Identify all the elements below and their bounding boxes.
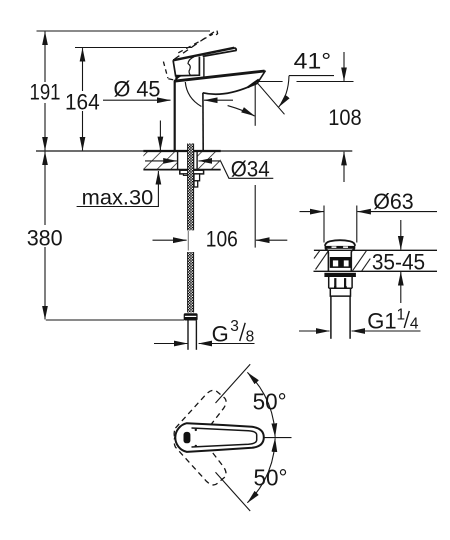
lever knob outline (173, 57, 199, 76)
deck reference line (36, 150, 352, 152)
pop-up waste cap dome (325, 240, 355, 246)
svg-text:164: 164 (65, 89, 100, 114)
svg-text:50°: 50° (254, 464, 288, 490)
overflow window (330, 257, 351, 268)
waste tailpipe (331, 296, 350, 339)
deck bottom line (143, 169, 220, 171)
top view dot upper (195, 429, 197, 431)
svg-text:Ø 45: Ø 45 (114, 76, 161, 101)
knob base shadow wedge (175, 75, 185, 80)
flexible hose upper segment (188, 144, 194, 231)
waste flange (324, 273, 356, 277)
svg-text:4: 4 (410, 316, 419, 333)
svg-text:106: 106 (206, 227, 238, 252)
drain deck top line (314, 249, 437, 251)
svg-text:Ø63: Ø63 (373, 189, 414, 214)
svg-text:108: 108 (328, 105, 361, 130)
dimension 164 (65, 48, 100, 150)
deck hatching right of shank (197, 152, 221, 170)
swing arc under spout (185, 82, 201, 107)
dimension max.30 (77, 121, 161, 210)
locknut lip (183, 174, 188, 176)
shank inner line (193, 152, 195, 170)
ray 50 degrees down (216, 472, 251, 511)
top view solid lever (175, 423, 264, 452)
svg-text:35-45: 35-45 (372, 250, 425, 275)
svg-text:1: 1 (397, 306, 406, 323)
dimension 191 (30, 32, 61, 151)
svg-text:191: 191 (30, 80, 61, 105)
faucet body right edge (202, 93, 204, 151)
thread ring (330, 288, 350, 296)
extension line bottom (380) (46, 319, 184, 321)
lever rear post (203, 57, 205, 77)
cap rim (325, 246, 356, 249)
dashed raised lever tip (213, 31, 217, 37)
shank step fitting upper (194, 174, 200, 181)
hose centerline in dimension gap (187, 231, 189, 251)
faucet body left edge (174, 81, 176, 151)
deck hatching left of shank (143, 152, 177, 170)
dimension Ø34 (145, 157, 273, 182)
knob joint detail (188, 57, 194, 75)
drain extension line right (356, 206, 358, 243)
svg-text:50°: 50° (253, 389, 287, 415)
lever top edge (173, 48, 234, 61)
svg-text:8: 8 (246, 328, 255, 345)
outlet extension line upper (254, 82, 256, 126)
svg-text:380: 380 (27, 225, 63, 250)
top view dot lower (195, 445, 197, 447)
shank left edge (177, 152, 179, 170)
threaded section (329, 277, 352, 288)
drain deck hatch (314, 251, 370, 271)
locknut under deck (180, 170, 204, 174)
drain extension line left (323, 206, 325, 243)
dimension 108 (328, 52, 361, 182)
deck top thick segment (143, 150, 220, 152)
svg-text:G1: G1 (367, 309, 396, 334)
dimension 380 (27, 152, 63, 320)
arc 50 degrees upper (247, 372, 275, 437)
waste neck (325, 249, 355, 271)
drain deck bottom line (314, 270, 438, 272)
outlet extension line lower (254, 185, 256, 248)
svg-text:3: 3 (230, 318, 239, 335)
spout top edge (174, 71, 265, 81)
spout end face (257, 71, 265, 84)
shank right edge (196, 152, 198, 170)
extension line top (191) (37, 30, 211, 32)
dimension 106 (153, 227, 288, 252)
shank step fitting lower (194, 181, 198, 187)
svg-text:max.30: max.30 (82, 187, 154, 210)
dashed raised lever upper edge (174, 30, 216, 59)
connection tube G3/8 (188, 321, 196, 350)
svg-text:Ø34: Ø34 (231, 157, 270, 182)
hose end fitting (184, 313, 198, 320)
spout outlet sliver (248, 80, 259, 88)
top view lever inner line (192, 428, 257, 447)
dimension G3/8 (154, 318, 255, 346)
dimension G1 1/4 (299, 306, 421, 333)
extension line (164) (75, 47, 192, 49)
dashed raised lever bottom edge (168, 79, 193, 81)
dimension 35-45 (372, 220, 425, 303)
dashed raised lever lower edge (178, 34, 213, 53)
top view centerline (265, 437, 292, 439)
dashed lever rotated down (169, 423, 231, 489)
svg-text:41°: 41° (294, 49, 332, 74)
dimension 41 degrees (257, 49, 354, 115)
ray 50 degrees up (216, 364, 251, 403)
dashed lever rotated up (169, 386, 231, 452)
swing arc with arrow (228, 106, 255, 116)
lever tip and underside (203, 48, 237, 57)
flexible hose lower segment (188, 252, 194, 312)
dimension Ø63 (300, 189, 438, 214)
dashed raised lever rear edge (163, 62, 168, 79)
top view knob slot (184, 432, 191, 443)
arc 50 degrees lower (247, 438, 275, 503)
svg-text:G: G (212, 321, 229, 346)
dimension Ø45 (103, 76, 233, 101)
spout underside (203, 83, 258, 94)
